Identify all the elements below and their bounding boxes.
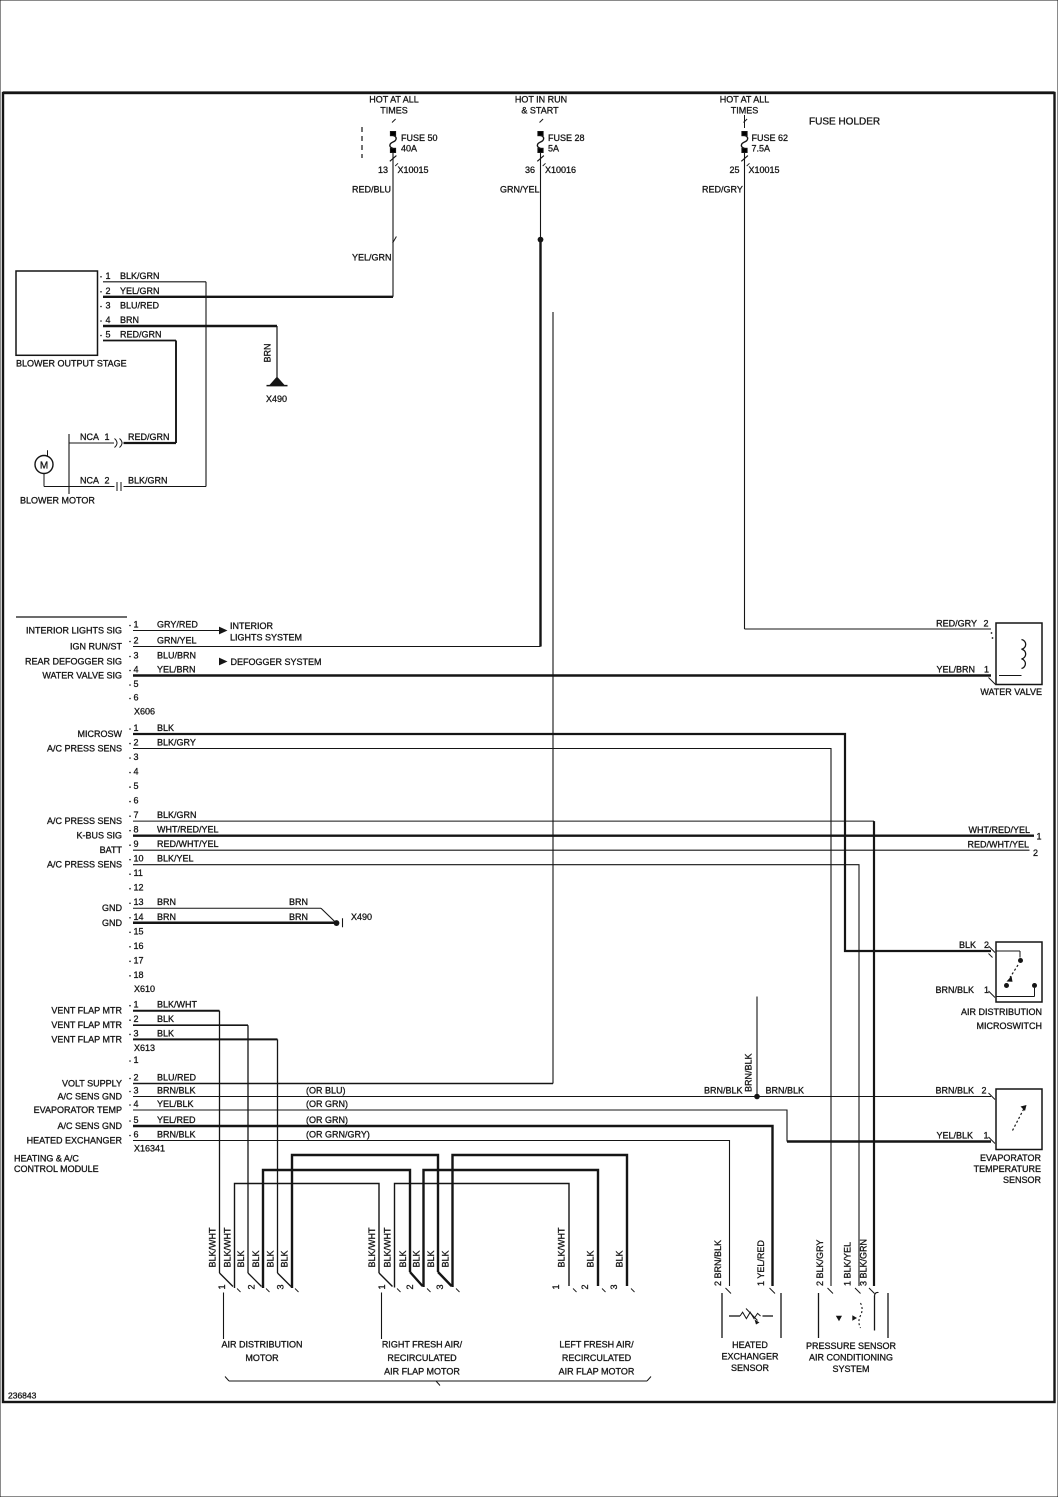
svg-text:BLK/WHT: BLK/WHT (208, 1227, 218, 1268)
svg-text:WATER VALVE SIG: WATER VALVE SIG (42, 671, 122, 681)
svg-text:1: 1 (104, 432, 109, 442)
svg-text:4: 4 (134, 767, 139, 777)
svg-text:1: 1 (217, 1284, 227, 1289)
svg-text:TIMES: TIMES (380, 106, 408, 116)
svg-text:BRN/BLK: BRN/BLK (704, 1086, 743, 1096)
svg-text:SENSOR: SENSOR (1003, 1175, 1042, 1185)
svg-text:1: 1 (134, 1000, 139, 1010)
svg-text:5: 5 (134, 679, 139, 689)
svg-text:(OR BLU): (OR BLU) (306, 1086, 346, 1096)
svg-text:MICROSW: MICROSW (78, 729, 123, 739)
svg-text:AIR FLAP MOTOR: AIR FLAP MOTOR (559, 1367, 635, 1377)
svg-text:4: 4 (134, 665, 139, 675)
svg-text:FUSE 28: FUSE 28 (548, 133, 585, 143)
svg-text:2: 2 (580, 1284, 590, 1289)
svg-text:3 BLK/GRN: 3 BLK/GRN (859, 1239, 869, 1286)
svg-text:1: 1 (984, 1131, 989, 1141)
svg-text:RED/WHT/YEL: RED/WHT/YEL (967, 840, 1029, 850)
svg-text:FUSE 62: FUSE 62 (752, 133, 789, 143)
svg-text:& START: & START (521, 106, 559, 116)
svg-text:RED/GRN: RED/GRN (120, 330, 162, 340)
svg-text:BLU/RED: BLU/RED (120, 301, 160, 311)
svg-text:2: 2 (104, 476, 109, 486)
svg-text:1: 1 (551, 1284, 561, 1289)
svg-text:X10016: X10016 (545, 165, 576, 175)
svg-text:13: 13 (378, 165, 388, 175)
svg-text:9: 9 (134, 839, 139, 849)
svg-text:BRN: BRN (120, 315, 139, 325)
svg-text:FUSE 50: FUSE 50 (401, 133, 438, 143)
svg-text:2: 2 (1033, 848, 1038, 858)
svg-text:GND: GND (102, 903, 123, 913)
svg-text:BLU/RED: BLU/RED (157, 1073, 197, 1083)
svg-text:BLK: BLK (236, 1250, 246, 1267)
svg-text:3: 3 (106, 301, 111, 311)
svg-text:3: 3 (134, 651, 139, 661)
svg-text:BRN: BRN (289, 912, 308, 922)
svg-text:BRN: BRN (157, 912, 176, 922)
svg-text:EVAPORATOR: EVAPORATOR (980, 1153, 1042, 1163)
svg-text:A/C SENS GND: A/C SENS GND (57, 1121, 122, 1131)
svg-text:AIR DISTRIBUTION: AIR DISTRIBUTION (961, 1007, 1042, 1017)
svg-text:BLK: BLK (265, 1250, 275, 1267)
svg-text:SYSTEM: SYSTEM (832, 1364, 869, 1374)
svg-text:RECIRCULATED: RECIRCULATED (562, 1353, 632, 1363)
svg-text:2: 2 (134, 636, 139, 646)
svg-text:BLK: BLK (157, 1028, 174, 1038)
svg-text:6: 6 (134, 796, 139, 806)
svg-text:RED/GRN: RED/GRN (128, 432, 170, 442)
svg-text:HOT IN RUN: HOT IN RUN (515, 95, 567, 105)
svg-text:X16341: X16341 (134, 1144, 165, 1154)
svg-text:X613: X613 (134, 1043, 155, 1053)
svg-text:YEL/BRN: YEL/BRN (157, 665, 196, 675)
svg-text:(OR GRN/GRY): (OR GRN/GRY) (306, 1130, 370, 1140)
svg-text:25: 25 (729, 165, 739, 175)
svg-text:BLOWER MOTOR: BLOWER MOTOR (20, 496, 95, 506)
svg-text:1: 1 (134, 723, 139, 733)
svg-text:HEATING & A/C: HEATING & A/C (14, 1154, 79, 1164)
svg-text:RED/WHT/YEL: RED/WHT/YEL (157, 839, 219, 849)
svg-text:GRN/YEL: GRN/YEL (157, 636, 197, 646)
svg-text:NCA: NCA (80, 432, 99, 442)
svg-text:BRN/BLK: BRN/BLK (935, 985, 974, 995)
svg-text:2: 2 (984, 619, 989, 629)
svg-text:1: 1 (134, 1055, 139, 1065)
svg-text:BLK: BLK (412, 1250, 422, 1267)
svg-text:3: 3 (435, 1284, 445, 1289)
svg-text:5: 5 (134, 781, 139, 791)
svg-text:MOTOR: MOTOR (245, 1353, 279, 1363)
svg-text:SENSOR: SENSOR (731, 1363, 770, 1373)
svg-text:MICROSWITCH: MICROSWITCH (977, 1021, 1043, 1031)
svg-text:2: 2 (982, 1086, 987, 1096)
svg-text:1 BLK/YEL: 1 BLK/YEL (843, 1242, 853, 1286)
svg-text:1: 1 (1037, 832, 1042, 842)
svg-text:BLK/WHT: BLK/WHT (367, 1227, 377, 1268)
svg-text:RIGHT FRESH AIR/: RIGHT FRESH AIR/ (382, 1340, 463, 1350)
svg-text:TEMPERATURE: TEMPERATURE (974, 1164, 1041, 1174)
svg-text:BLK: BLK (426, 1250, 436, 1267)
svg-text:AIR FLAP MOTOR: AIR FLAP MOTOR (384, 1367, 460, 1377)
svg-text:WHT/RED/YEL: WHT/RED/YEL (968, 825, 1030, 835)
svg-text:2: 2 (106, 286, 111, 296)
svg-text:VENT FLAP MTR: VENT FLAP MTR (51, 1006, 122, 1016)
svg-text:X606: X606 (134, 707, 155, 717)
svg-text:X490: X490 (266, 394, 287, 404)
svg-text:BLK/GRN: BLK/GRN (120, 271, 160, 281)
svg-text:X490: X490 (351, 912, 372, 922)
svg-text:X10015: X10015 (749, 165, 780, 175)
svg-text:BLK: BLK (959, 940, 976, 950)
svg-text:1: 1 (134, 620, 139, 630)
svg-text:BRN: BRN (157, 897, 176, 907)
svg-text:BRN/BLK: BRN/BLK (744, 1053, 754, 1092)
svg-text:BRN/BLK: BRN/BLK (157, 1130, 196, 1140)
svg-text:GRY/RED: GRY/RED (157, 620, 198, 630)
svg-text:DEFOGGER SYSTEM: DEFOGGER SYSTEM (231, 657, 322, 667)
svg-text:BLK: BLK (157, 723, 174, 733)
svg-text:BRN: BRN (263, 343, 273, 362)
svg-text:2: 2 (247, 1284, 257, 1289)
svg-text:BLK: BLK (441, 1250, 451, 1267)
svg-text:M: M (40, 460, 48, 471)
svg-text:YEL/BLK: YEL/BLK (157, 1099, 194, 1109)
svg-text:INTERIOR: INTERIOR (230, 621, 274, 631)
svg-text:13: 13 (134, 897, 144, 907)
svg-text:2: 2 (134, 1073, 139, 1083)
svg-text:A/C SENS GND: A/C SENS GND (57, 1092, 122, 1102)
svg-text:EXCHANGER: EXCHANGER (721, 1352, 779, 1362)
svg-text:GRN/YEL: GRN/YEL (500, 185, 540, 195)
svg-text:AIR CONDITIONING: AIR CONDITIONING (809, 1353, 893, 1363)
svg-text:236843: 236843 (8, 1391, 37, 1401)
svg-text:X10015: X10015 (398, 165, 429, 175)
svg-text:YEL/BLK: YEL/BLK (936, 1131, 973, 1141)
svg-text:40A: 40A (401, 144, 417, 154)
svg-text:6: 6 (134, 693, 139, 703)
svg-text:HOT AT ALL: HOT AT ALL (369, 95, 419, 105)
svg-text:GND: GND (102, 918, 123, 928)
svg-text:5A: 5A (548, 144, 559, 154)
svg-text:(OR GRN): (OR GRN) (306, 1099, 348, 1109)
svg-text:1 YEL/RED: 1 YEL/RED (756, 1240, 766, 1286)
svg-text:4: 4 (134, 1099, 139, 1109)
svg-text:BRN/BLK: BRN/BLK (157, 1086, 196, 1096)
svg-text:BLK/WHT: BLK/WHT (557, 1227, 567, 1268)
svg-text:10: 10 (134, 854, 144, 864)
svg-text:2 BRN/BLK: 2 BRN/BLK (713, 1240, 723, 1286)
svg-text:K-BUS SIG: K-BUS SIG (76, 831, 122, 841)
svg-text:36: 36 (525, 165, 535, 175)
svg-text:LEFT FRESH AIR/: LEFT FRESH AIR/ (559, 1340, 634, 1350)
svg-text:YEL/RED: YEL/RED (157, 1115, 196, 1125)
svg-text:BLK: BLK (157, 1014, 174, 1024)
svg-text:TIMES: TIMES (731, 106, 759, 116)
svg-text:VENT FLAP MTR: VENT FLAP MTR (51, 1020, 122, 1030)
svg-text:6: 6 (134, 1130, 139, 1140)
svg-text:BLK: BLK (398, 1250, 408, 1267)
svg-text:BLK/GRY: BLK/GRY (157, 738, 196, 748)
svg-text:VENT FLAP MTR: VENT FLAP MTR (51, 1034, 122, 1044)
svg-text:RED/BLU: RED/BLU (352, 185, 391, 195)
svg-text:16: 16 (134, 941, 144, 951)
svg-text:12: 12 (134, 883, 144, 893)
svg-text:BRN: BRN (289, 897, 308, 907)
svg-text:2: 2 (134, 1014, 139, 1024)
svg-text:3: 3 (134, 752, 139, 762)
svg-text:3: 3 (609, 1284, 619, 1289)
svg-text:RED/GRY: RED/GRY (702, 185, 743, 195)
svg-text:HOT AT ALL: HOT AT ALL (720, 95, 770, 105)
svg-text:RECIRCULATED: RECIRCULATED (387, 1353, 457, 1363)
svg-text:EVAPORATOR TEMP: EVAPORATOR TEMP (34, 1105, 122, 1115)
svg-text:BLK: BLK (615, 1250, 625, 1267)
svg-text:BATT: BATT (100, 845, 123, 855)
svg-text:BRN/BLK: BRN/BLK (766, 1086, 805, 1096)
svg-text:INTERIOR LIGHTS SIG: INTERIOR LIGHTS SIG (26, 626, 122, 636)
svg-text:14: 14 (134, 912, 144, 922)
svg-text:1: 1 (984, 665, 989, 675)
svg-text:2: 2 (405, 1284, 415, 1289)
svg-text:FUSE HOLDER: FUSE HOLDER (809, 117, 880, 128)
svg-text:IGN RUN/ST: IGN RUN/ST (70, 642, 123, 652)
svg-text:BLU/BRN: BLU/BRN (157, 651, 196, 661)
svg-text:1: 1 (377, 1284, 387, 1289)
svg-text:1: 1 (984, 985, 989, 995)
svg-text:7.5A: 7.5A (752, 144, 771, 154)
svg-text:18: 18 (134, 970, 144, 980)
svg-text:15: 15 (134, 926, 144, 936)
svg-text:RED/GRY: RED/GRY (936, 619, 977, 629)
svg-text:YEL/GRN: YEL/GRN (352, 253, 392, 263)
svg-text:WATER VALVE: WATER VALVE (980, 687, 1042, 697)
svg-text:A/C PRESS SENS: A/C PRESS SENS (47, 860, 122, 870)
svg-text:HEATED: HEATED (732, 1340, 768, 1350)
svg-text:5: 5 (106, 330, 111, 340)
svg-text:3: 3 (134, 1086, 139, 1096)
svg-text:PRESSURE SENSOR: PRESSURE SENSOR (806, 1341, 897, 1351)
svg-text:8: 8 (134, 825, 139, 835)
svg-text:A/C PRESS SENS: A/C PRESS SENS (47, 816, 122, 826)
svg-text:BLK: BLK (251, 1250, 261, 1267)
svg-text:(OR GRN): (OR GRN) (306, 1115, 348, 1125)
svg-text:A/C PRESS SENS: A/C PRESS SENS (47, 744, 122, 754)
svg-text:YEL/BRN: YEL/BRN (936, 665, 975, 675)
svg-text:17: 17 (134, 955, 144, 965)
svg-text:2 BLK/GRY: 2 BLK/GRY (815, 1240, 825, 1286)
svg-text:BLK/WHT: BLK/WHT (157, 1000, 198, 1010)
svg-text:WHT/RED/YEL: WHT/RED/YEL (157, 825, 219, 835)
svg-text:VOLT SUPPLY: VOLT SUPPLY (62, 1079, 122, 1089)
svg-text:2: 2 (134, 738, 139, 748)
svg-text:3: 3 (276, 1284, 286, 1289)
svg-text:BLK/WHT: BLK/WHT (222, 1227, 232, 1268)
svg-text:5: 5 (134, 1115, 139, 1125)
svg-text:7: 7 (134, 810, 139, 820)
svg-text:NCA: NCA (80, 476, 99, 486)
svg-text:X610: X610 (134, 984, 155, 994)
svg-text:3: 3 (134, 1028, 139, 1038)
svg-text:BLK/GRN: BLK/GRN (157, 810, 197, 820)
svg-text:YEL/GRN: YEL/GRN (120, 286, 160, 296)
svg-text:REAR DEFOGGER SIG: REAR DEFOGGER SIG (25, 657, 122, 667)
svg-text:1: 1 (106, 271, 111, 281)
svg-text:BLK: BLK (586, 1250, 596, 1267)
svg-text:BLK: BLK (280, 1250, 290, 1267)
svg-text:BLK/GRN: BLK/GRN (128, 476, 168, 486)
svg-text:BRN/BLK: BRN/BLK (935, 1086, 974, 1096)
svg-text:AIR DISTRIBUTION: AIR DISTRIBUTION (221, 1340, 302, 1350)
svg-text:11: 11 (134, 868, 143, 878)
svg-text:2: 2 (984, 940, 989, 950)
svg-text:BLK/WHT: BLK/WHT (383, 1227, 393, 1268)
svg-text:CONTROL MODULE: CONTROL MODULE (14, 1164, 99, 1174)
svg-text:4: 4 (106, 315, 111, 325)
svg-text:BLK/YEL: BLK/YEL (157, 854, 194, 864)
svg-text:HEATED EXCHANGER: HEATED EXCHANGER (27, 1136, 123, 1146)
svg-text:BLOWER OUTPUT STAGE: BLOWER OUTPUT STAGE (16, 359, 127, 369)
svg-text:LIGHTS SYSTEM: LIGHTS SYSTEM (230, 632, 302, 642)
